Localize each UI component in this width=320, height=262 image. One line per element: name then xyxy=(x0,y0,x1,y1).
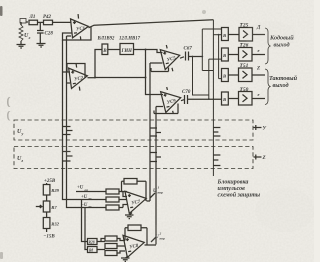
driver Т26 xyxy=(239,43,253,62)
net A vertical (left pair, outer) xyxy=(63,40,77,200)
ground under Ux xyxy=(17,45,26,49)
wire УС9 output xyxy=(181,100,184,101)
op-amp УС1 xyxy=(70,13,90,41)
wire УС5 inverting input from net Uпор1 xyxy=(150,62,163,64)
svg-text:R8: R8 xyxy=(89,249,93,253)
svg-text:Z: Z xyxy=(262,156,266,161)
wire output е xyxy=(252,48,265,55)
wire R7 to R32 xyxy=(46,212,48,218)
svg-text:R32: R32 xyxy=(51,222,59,227)
block В xyxy=(102,44,108,55)
feeder vertical net D xyxy=(193,57,209,96)
svg-text:Z: Z xyxy=(256,67,260,72)
svg-text:Тактовый: Тактовый xyxy=(269,75,298,82)
wire row2 to Т26 xyxy=(228,54,238,56)
resistor R8 xyxy=(88,247,98,253)
svg-text:В: В xyxy=(222,53,226,58)
wire ГИН to УС5 xyxy=(134,50,163,53)
capacitor С67 xyxy=(184,47,193,61)
wire junction up to block В xyxy=(95,50,102,78)
note Блокировка xyxy=(217,180,261,199)
svg-text:В: В xyxy=(222,33,226,38)
wire row1 to Т25 xyxy=(228,34,239,36)
driver Т25 xyxy=(239,23,253,42)
junction stubs blocking net in units xyxy=(213,128,220,166)
wire feedback loop УС2 xyxy=(67,64,85,79)
resistor Р42 xyxy=(43,15,53,25)
buffer stage row2 xyxy=(222,48,229,61)
wire output т xyxy=(252,92,265,99)
wire УС9 inverting input from net Uпор2 xyxy=(156,106,163,108)
block ГИН xyxy=(120,44,134,55)
svg-text:пор: пор xyxy=(158,191,164,195)
op-amp УС2 xyxy=(68,62,89,92)
svg-text:у: у xyxy=(21,131,24,136)
wires resistors to УС7 xyxy=(119,192,127,208)
feeder vertical net G (row3 tap) xyxy=(219,35,222,79)
junction net E on С67 wire xyxy=(201,56,203,58)
junction stubs on Uпор nets in units xyxy=(150,128,161,162)
svg-text:R28: R28 xyxy=(89,241,95,245)
svg-text:У: У xyxy=(263,127,267,132)
svg-text:импульсов: импульсов xyxy=(218,186,246,192)
wire row4 to Т50 xyxy=(228,98,238,100)
svg-text:С70: С70 xyxy=(182,90,191,95)
net +Uвх xyxy=(76,195,106,201)
svg-text:е: е xyxy=(258,48,260,53)
input resistor 2 of УС8 xyxy=(105,244,117,249)
feedback resistor of УС7 xyxy=(122,179,147,202)
junction net C top xyxy=(145,49,147,51)
wire node between resistors xyxy=(38,21,44,23)
junction stubs on net A/B in unit Uy xyxy=(63,127,73,135)
net −Uвх xyxy=(76,203,106,209)
feeder vertical net E xyxy=(202,29,221,71)
input resistor 3 of УС7 xyxy=(106,205,119,210)
svg-text:Т51: Т51 xyxy=(240,63,249,69)
svg-text:x: x xyxy=(28,35,31,40)
wire С67 to driver feeders xyxy=(189,56,203,58)
net Uпор2 vertical xyxy=(155,107,157,245)
wire УС5 output xyxy=(180,57,184,58)
wire УС2 output to junction xyxy=(88,77,96,79)
wires R28/R8 to input network xyxy=(97,242,105,250)
svg-text:Т50: Т50 xyxy=(240,87,249,93)
wire feedback УС1 xyxy=(63,27,92,40)
svg-text:Р42: Р42 xyxy=(43,15,52,20)
wires input network to УС8 xyxy=(101,239,125,254)
svg-text:R29: R29 xyxy=(51,188,59,193)
buffer stage row1 xyxy=(222,28,229,41)
junction УС2 output xyxy=(94,77,96,79)
feedback resistor of УС8 xyxy=(125,225,147,245)
net Uпор2 output label xyxy=(145,232,166,246)
svg-text:УС1: УС1 xyxy=(76,26,85,32)
input resistor 2 of УС7 xyxy=(106,197,119,202)
wire УС2 inputs from nets xyxy=(63,72,71,83)
wire hysteresis loop УС5 xyxy=(151,68,169,72)
svg-text:−15В: −15В xyxy=(43,235,55,240)
svg-text:е: е xyxy=(258,92,260,97)
op-amp УС9 xyxy=(160,84,184,115)
svg-text:Блокировка: Блокировка xyxy=(217,180,249,186)
feeder vertical blocking net xyxy=(212,20,214,176)
op-amp УС8 xyxy=(123,232,146,258)
op-amp УС7 xyxy=(125,188,148,214)
wire output Z xyxy=(252,67,265,76)
svg-text:12Л.НВ17: 12Л.НВ17 xyxy=(119,37,141,42)
connector loop top-left xyxy=(20,19,26,26)
junction net C at УС2 output level xyxy=(145,77,147,79)
wire row3 to Т51 xyxy=(228,74,238,76)
svg-text:ВЛ1В92: ВЛ1В92 xyxy=(97,37,115,42)
dashed unit Uz xyxy=(14,147,253,169)
svg-text:z: z xyxy=(21,158,24,163)
buffer stage row4 xyxy=(222,92,229,105)
tap wire to R8 xyxy=(85,208,88,250)
input resistor 3 of УС8 xyxy=(105,251,117,256)
wire junction right to net C xyxy=(95,77,146,79)
wire top bus from УС1 to driver column xyxy=(89,20,214,28)
wire R32 down xyxy=(46,229,48,233)
svg-text:В: В xyxy=(222,97,226,102)
svg-text:+U: +U xyxy=(77,186,84,191)
net +Uоп xyxy=(76,186,106,193)
wire Р42 to УС1 input xyxy=(53,21,72,23)
svg-text:схемой защиты: схемой защиты xyxy=(218,192,261,199)
dashed unit Uy xyxy=(14,120,253,140)
svg-text:В: В xyxy=(102,49,107,54)
capacitor С70 xyxy=(182,90,191,104)
scan artifacts xyxy=(0,6,206,259)
junction net F on С70 wire xyxy=(208,98,210,100)
ground under УС8 xyxy=(121,258,130,261)
net Uпор1 vertical xyxy=(149,63,151,201)
driver Т51 xyxy=(239,63,253,82)
svg-text:ГИН: ГИН xyxy=(121,49,133,54)
input resistor 1 of УС7 xyxy=(106,189,119,194)
net B vertical (left pair, inner) xyxy=(67,36,77,208)
capacitor С28 xyxy=(37,22,53,43)
wire output Д xyxy=(253,26,266,35)
wire hysteresis loop УС9 xyxy=(154,104,178,114)
svg-text:С28: С28 xyxy=(45,32,54,37)
svg-text:Т25: Т25 xyxy=(240,23,249,29)
wire В to ГИН xyxy=(108,49,120,51)
voltage source Ux xyxy=(19,22,31,44)
ground under УС7 xyxy=(125,215,134,219)
junction net G on row1 stub xyxy=(218,34,220,36)
brace Тактовый выход xyxy=(265,69,298,105)
wire output Z xyxy=(254,155,266,162)
wire С70 to Т50 row xyxy=(188,98,222,100)
svg-text:Т26: Т26 xyxy=(240,43,249,49)
resistor R29 xyxy=(43,185,59,196)
driver Т50 xyxy=(239,87,253,105)
svg-text:Л1: Л1 xyxy=(29,15,36,20)
svg-text:В: В xyxy=(222,74,226,79)
stub net B top xyxy=(67,35,72,37)
tap wire to R28 xyxy=(82,200,88,242)
brace Кодовый выход xyxy=(265,28,294,64)
wire feeder to row1 xyxy=(213,34,221,36)
wire С67 mesh junction xyxy=(192,56,194,58)
svg-text:R7: R7 xyxy=(51,205,57,210)
buffer stage row3 xyxy=(222,69,229,82)
input resistor 1 of УС8 xyxy=(105,236,117,241)
wire output У xyxy=(254,125,267,132)
resistor R28 xyxy=(88,239,98,245)
junction stubs on net A/B in unit Uz xyxy=(63,152,73,162)
resistor R32 xyxy=(43,218,59,229)
svg-text:С67: С67 xyxy=(184,47,193,52)
wire R29 to R7 xyxy=(46,195,48,201)
svg-text:выход: выход xyxy=(273,82,289,89)
wire Ux to R chain xyxy=(26,21,28,23)
wire supply chain top xyxy=(46,183,48,185)
svg-text:+25В: +25В xyxy=(44,179,56,184)
op-amp УС5 xyxy=(160,42,184,72)
svg-text:1: 1 xyxy=(158,186,160,190)
svg-text:U: U xyxy=(153,189,157,194)
wire net C down to УС9 input xyxy=(146,50,164,95)
ground under С28 xyxy=(37,44,46,48)
potentiometer R7 xyxy=(36,201,58,212)
net Uпор1 output label xyxy=(147,186,164,202)
feeder vertical net F (row2 tap) xyxy=(209,59,222,99)
resistor Л1 xyxy=(29,15,38,25)
